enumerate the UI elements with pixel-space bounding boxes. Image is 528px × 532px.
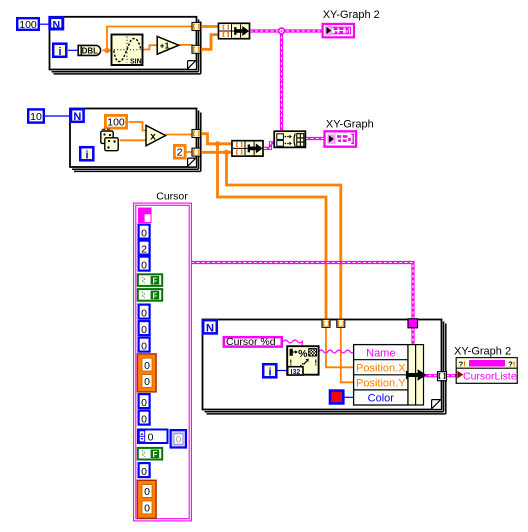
svg-text:0: 0 [144, 376, 150, 388]
svg-text:N: N [73, 111, 81, 123]
svg-text:N: N [53, 19, 61, 31]
svg-text:Name: Name [366, 347, 395, 359]
svg-text:2: 2 [177, 147, 183, 159]
svg-text:i: i [85, 149, 88, 161]
svg-text:x: x [150, 132, 156, 143]
svg-text:100: 100 [107, 117, 125, 129]
svg-text:N: N [206, 322, 214, 334]
svg-text:DBL: DBL [82, 47, 99, 56]
svg-text:?!: ?! [459, 359, 466, 368]
svg-text:Cursor %d: Cursor %d [226, 336, 276, 348]
svg-text:?!: ?! [508, 359, 515, 368]
svg-text:I32: I32 [291, 369, 301, 376]
svg-text:+1: +1 [160, 40, 170, 50]
svg-text:Position.Y: Position.Y [356, 378, 406, 390]
svg-text:0: 0 [141, 228, 147, 240]
svg-text:0: 0 [148, 432, 154, 444]
svg-text:0: 0 [176, 435, 181, 446]
svg-text:Position.X: Position.X [356, 362, 406, 374]
svg-text:CursorListe: CursorListe [463, 371, 517, 383]
svg-text:Color: Color [368, 393, 395, 405]
svg-text:10: 10 [30, 111, 42, 123]
svg-text:i: i [268, 366, 271, 378]
svg-text:2: 2 [141, 244, 147, 256]
svg-text:F: F [152, 277, 157, 286]
svg-text:100: 100 [19, 19, 37, 31]
svg-text:%: % [298, 348, 308, 360]
svg-text:SIN: SIN [130, 59, 142, 66]
svg-text:XY-Graph 2: XY-Graph 2 [454, 345, 511, 357]
svg-text:Cursor: Cursor [156, 191, 188, 203]
svg-text:0: 0 [144, 360, 150, 372]
svg-text:i: i [58, 46, 61, 58]
svg-text:XY-Graph: XY-Graph [326, 119, 374, 131]
svg-text:!: ! [314, 358, 317, 367]
svg-text:XY-Graph 2: XY-Graph 2 [323, 9, 380, 21]
